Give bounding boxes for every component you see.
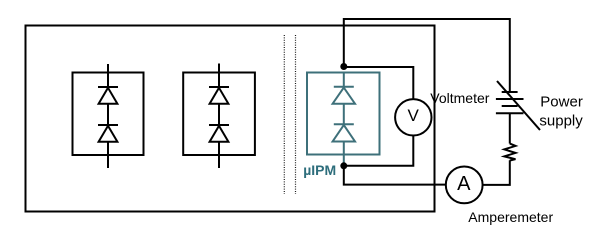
diode D5 triangle [333, 88, 355, 104]
power supply battery bar 4 long [496, 112, 524, 114]
diode D2 triangle [99, 126, 118, 142]
power supply battery bar 3 short [502, 105, 518, 107]
dotted partition line left [283, 35, 285, 194]
diode D1 cathode bar [98, 86, 118, 88]
wire: bottom node down and right to amperemeter [344, 166, 447, 185]
wire: battery to resistor [509, 113, 511, 143]
diode D3 cathode bar [209, 86, 229, 88]
wire: module 2 center lead [218, 64, 220, 169]
wire: top node to power supply (up, across, down) [344, 19, 510, 92]
diode D5 cathode bar [334, 86, 354, 88]
diode D3 triangle [210, 88, 229, 104]
diode module 2 box [183, 73, 255, 156]
uIPM device box [307, 73, 380, 155]
wire: amperemeter to resistor bottom [482, 160, 510, 185]
diode D4 cathode bar [209, 124, 229, 126]
node dot bottom [340, 162, 347, 169]
diode D6 cathode bar [334, 123, 354, 125]
diode D4 triangle [210, 126, 229, 142]
wire: voltmeter bottom to bottom node [344, 135, 414, 166]
diode D2 cathode bar [98, 124, 118, 126]
power supply adjustable diagonal stroke [497, 81, 540, 130]
svg-text:Power: Power [540, 94, 583, 111]
svg-text:Voltmeter: Voltmeter [430, 90, 489, 106]
power supply battery bar 1 short [502, 91, 518, 93]
diode module 1 box [73, 73, 144, 156]
amperemeter A1 circle [446, 167, 483, 204]
svg-text:Amperemeter: Amperemeter [468, 209, 553, 225]
svg-text:V: V [408, 106, 420, 125]
wire: top node to voltmeter top [344, 67, 414, 100]
wire: uIPM internal lead [343, 73, 345, 164]
power supply battery bar 2 long [496, 98, 524, 100]
node dot top [340, 63, 347, 70]
outer enclosure box [26, 26, 435, 212]
diode D1 triangle [99, 88, 118, 104]
voltmeter V1 circle [395, 99, 431, 135]
diode D6 triangle [333, 125, 355, 142]
svg-text:µIPM: µIPM [303, 162, 336, 178]
dotted partition line right [295, 35, 297, 194]
wire: module 1 center lead [107, 64, 109, 168]
svg-text:A: A [457, 173, 471, 195]
svg-text:supply: supply [539, 113, 583, 130]
resistor R1 zigzag [504, 144, 515, 161]
